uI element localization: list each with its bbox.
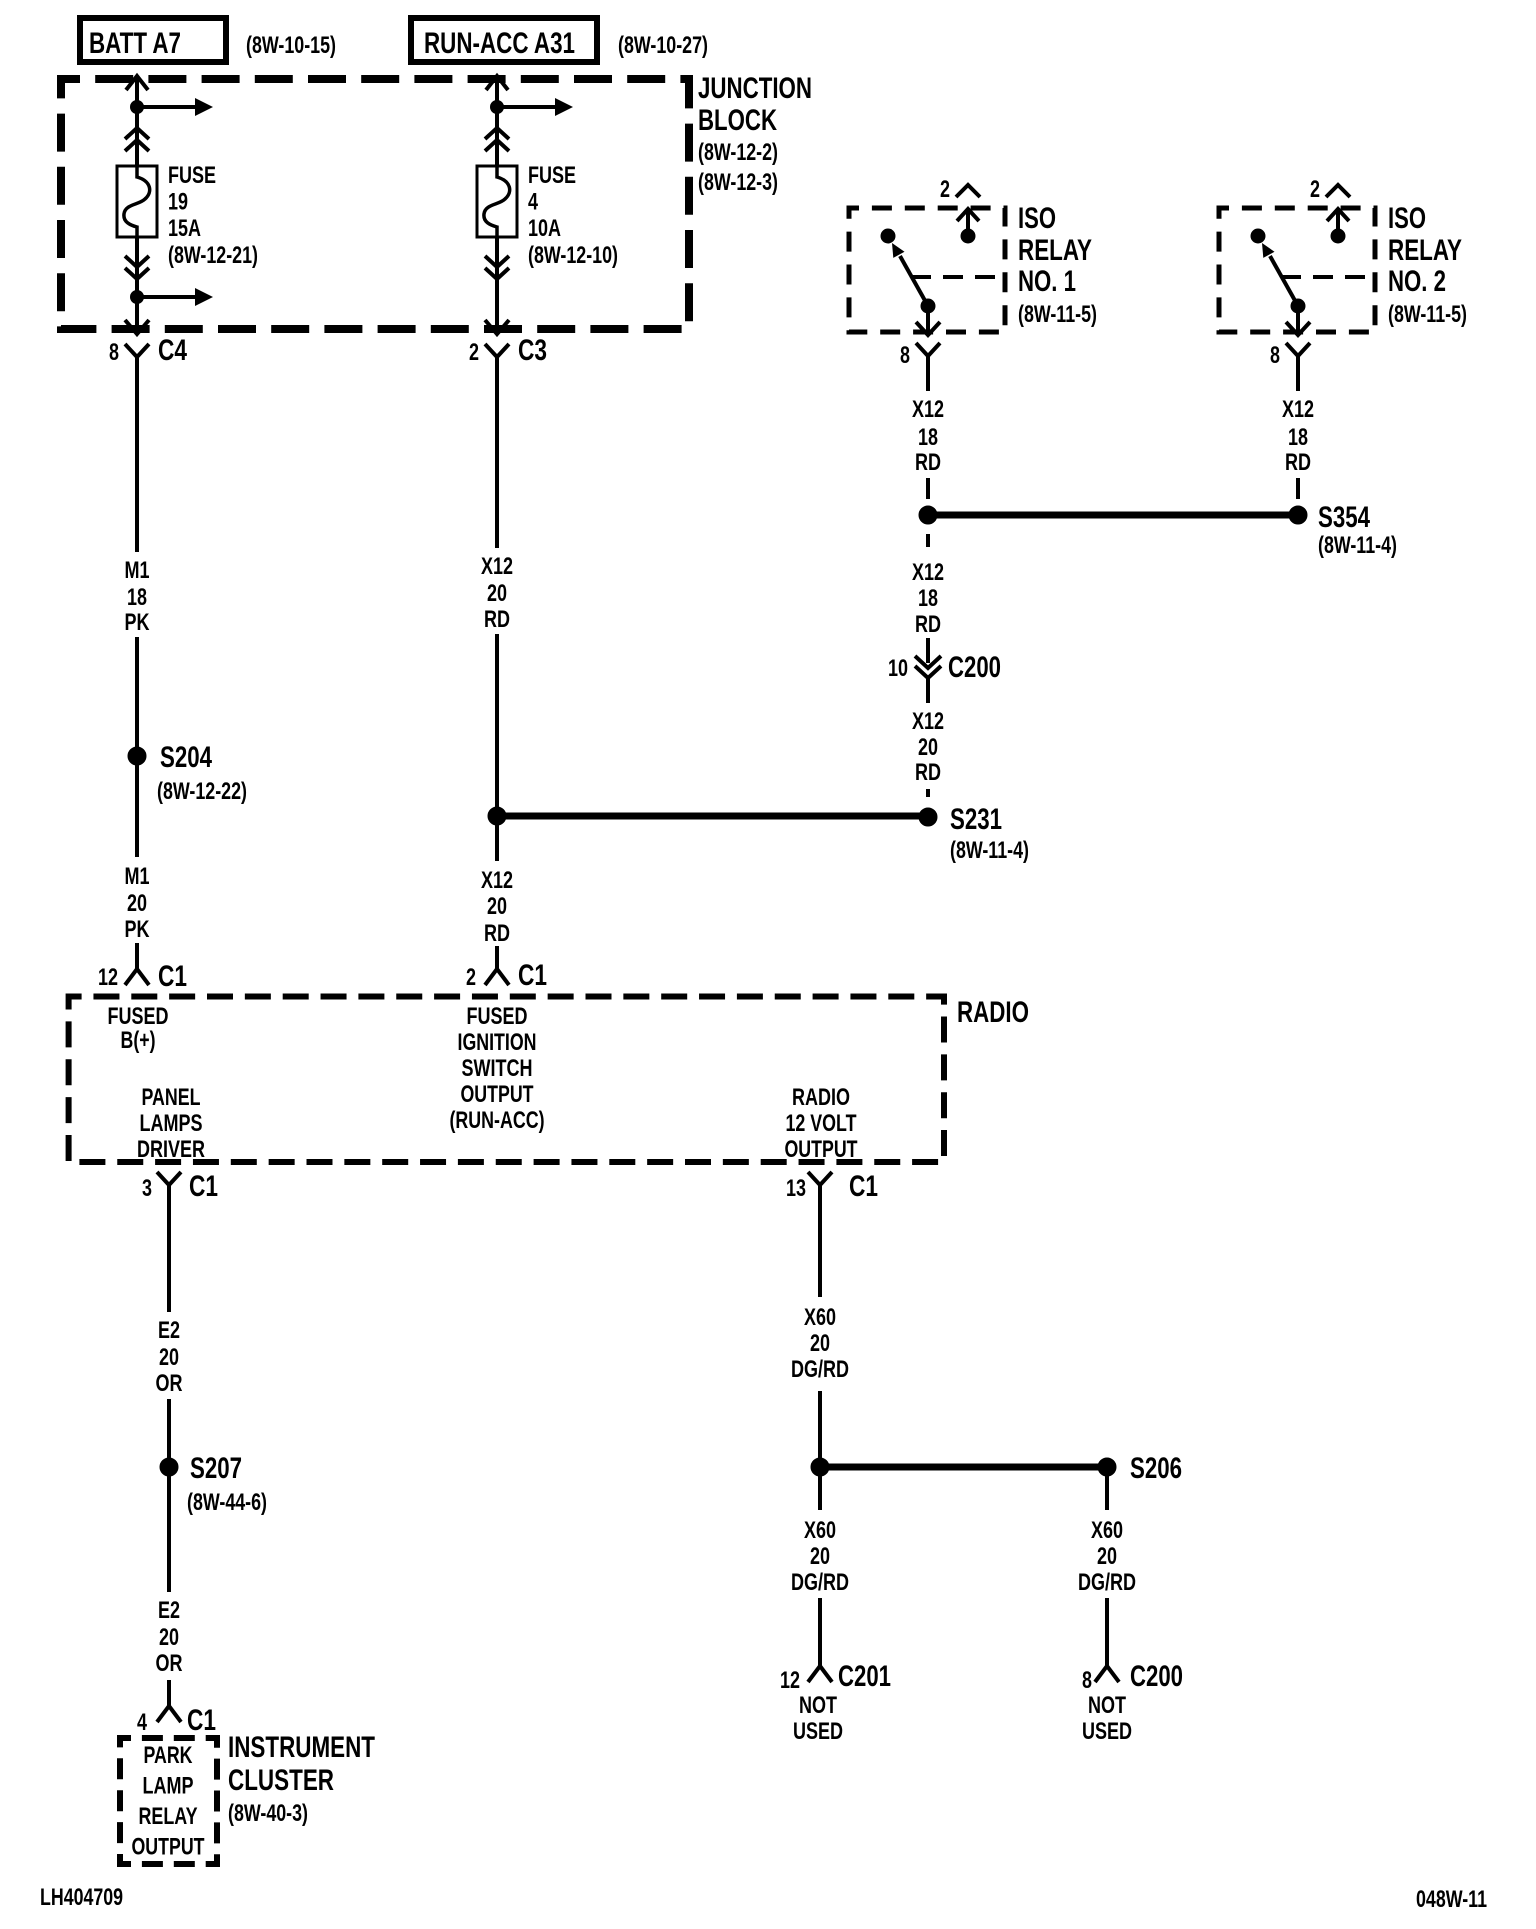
- svg-text:X60: X60: [1091, 1517, 1123, 1544]
- svg-text:X12: X12: [912, 708, 944, 735]
- svg-text:C200: C200: [948, 651, 1001, 684]
- svg-text:S207: S207: [190, 1452, 242, 1485]
- svg-text:20: 20: [159, 1624, 179, 1651]
- svg-text:NOT: NOT: [1088, 1692, 1126, 1719]
- svg-text:M1: M1: [125, 863, 150, 890]
- svg-text:(8W-11-4): (8W-11-4): [1318, 532, 1397, 559]
- svg-text:ISO: ISO: [1388, 202, 1426, 235]
- svg-text:S204: S204: [160, 741, 212, 774]
- svg-text:13: 13: [786, 1175, 806, 1202]
- svg-text:PK: PK: [125, 609, 150, 636]
- svg-text:8: 8: [1082, 1667, 1092, 1694]
- svg-text:RELAY: RELAY: [139, 1803, 198, 1830]
- svg-text:C201: C201: [838, 1660, 891, 1693]
- svg-text:(8W-11-4): (8W-11-4): [950, 837, 1029, 864]
- svg-text:C1: C1: [187, 1704, 216, 1737]
- svg-text:X12: X12: [912, 559, 944, 586]
- svg-text:4: 4: [528, 189, 538, 216]
- svg-text:8: 8: [109, 339, 119, 366]
- svg-text:(8W-10-15): (8W-10-15): [246, 32, 336, 59]
- svg-text:C1: C1: [518, 959, 547, 992]
- svg-text:(8W-12-21): (8W-12-21): [168, 242, 258, 269]
- svg-text:ISO: ISO: [1018, 202, 1056, 235]
- svg-text:B(+): B(+): [121, 1027, 156, 1054]
- svg-text:INSTRUMENT: INSTRUMENT: [228, 1731, 375, 1764]
- svg-text:JUNCTION: JUNCTION: [698, 72, 812, 105]
- svg-text:BLOCK: BLOCK: [698, 104, 777, 137]
- svg-text:10: 10: [888, 655, 908, 682]
- svg-text:X12: X12: [1282, 396, 1314, 423]
- svg-text:(8W-44-6): (8W-44-6): [187, 1489, 267, 1516]
- svg-text:PK: PK: [125, 916, 150, 943]
- svg-text:10A: 10A: [528, 215, 561, 242]
- svg-text:12 VOLT: 12 VOLT: [786, 1110, 857, 1137]
- svg-text:M1: M1: [125, 557, 150, 584]
- svg-text:(8W-11-5): (8W-11-5): [1388, 301, 1467, 328]
- svg-text:RD: RD: [484, 606, 510, 633]
- svg-text:3: 3: [142, 1175, 152, 1202]
- svg-text:OUTPUT: OUTPUT: [785, 1136, 858, 1163]
- svg-text:DG/RD: DG/RD: [791, 1356, 849, 1383]
- svg-text:NO. 1: NO. 1: [1018, 265, 1076, 298]
- svg-text:CLUSTER: CLUSTER: [228, 1764, 334, 1797]
- svg-text:C1: C1: [158, 960, 187, 993]
- svg-text:X12: X12: [912, 396, 944, 423]
- svg-text:8: 8: [1270, 342, 1280, 369]
- svg-text:18: 18: [918, 585, 938, 612]
- svg-text:OUTPUT: OUTPUT: [461, 1081, 534, 1108]
- svg-text:FUSED: FUSED: [108, 1003, 169, 1030]
- svg-text:15A: 15A: [168, 215, 201, 242]
- svg-text:048W-11: 048W-11: [1416, 1886, 1487, 1913]
- svg-text:2: 2: [940, 176, 950, 203]
- svg-text:DG/RD: DG/RD: [1078, 1569, 1136, 1596]
- svg-text:X60: X60: [804, 1517, 836, 1544]
- svg-text:19: 19: [168, 189, 188, 216]
- svg-text:RD: RD: [484, 920, 510, 947]
- svg-text:(8W-12-2): (8W-12-2): [698, 139, 778, 166]
- svg-text:DRIVER: DRIVER: [137, 1136, 205, 1163]
- svg-text:12: 12: [98, 964, 118, 991]
- svg-text:18: 18: [127, 584, 147, 611]
- svg-text:RD: RD: [1285, 449, 1311, 476]
- svg-text:20: 20: [159, 1344, 179, 1371]
- svg-text:12: 12: [780, 1667, 800, 1694]
- svg-text:NO. 2: NO. 2: [1388, 265, 1446, 298]
- svg-text:RD: RD: [915, 449, 941, 476]
- svg-text:NOT: NOT: [799, 1692, 837, 1719]
- svg-text:(RUN-ACC): (RUN-ACC): [450, 1107, 545, 1134]
- svg-text:IGNITION: IGNITION: [458, 1029, 537, 1056]
- svg-text:USED: USED: [1082, 1718, 1132, 1745]
- svg-text:2: 2: [469, 339, 479, 366]
- svg-text:20: 20: [1097, 1543, 1117, 1570]
- svg-text:OR: OR: [156, 1650, 183, 1677]
- svg-text:BATT A7: BATT A7: [89, 27, 181, 60]
- svg-text:LAMP: LAMP: [143, 1773, 194, 1800]
- svg-text:20: 20: [487, 893, 507, 920]
- svg-text:RUN-ACC A31: RUN-ACC A31: [424, 27, 575, 60]
- svg-text:4: 4: [137, 1709, 147, 1736]
- svg-text:C1: C1: [189, 1170, 218, 1203]
- svg-text:C3: C3: [518, 334, 547, 367]
- svg-text:E2: E2: [158, 1597, 180, 1624]
- svg-text:C1: C1: [849, 1170, 878, 1203]
- svg-text:RADIO: RADIO: [957, 996, 1029, 1029]
- svg-text:20: 20: [487, 580, 507, 607]
- svg-text:X12: X12: [481, 867, 513, 894]
- svg-text:S206: S206: [1130, 1452, 1182, 1485]
- svg-text:RADIO: RADIO: [792, 1084, 850, 1111]
- svg-text:(8W-40-3): (8W-40-3): [228, 1800, 308, 1827]
- svg-text:20: 20: [127, 890, 147, 917]
- svg-text:FUSED: FUSED: [467, 1003, 528, 1030]
- svg-text:PANEL: PANEL: [142, 1084, 201, 1111]
- svg-text:RELAY: RELAY: [1018, 234, 1092, 267]
- svg-text:USED: USED: [793, 1718, 843, 1745]
- svg-text:(8W-12-10): (8W-12-10): [528, 242, 618, 269]
- svg-text:C4: C4: [158, 334, 187, 367]
- svg-text:20: 20: [810, 1330, 830, 1357]
- svg-text:OR: OR: [156, 1370, 183, 1397]
- svg-text:S354: S354: [1318, 501, 1370, 534]
- svg-text:S231: S231: [950, 803, 1002, 836]
- svg-text:PARK: PARK: [144, 1742, 193, 1769]
- svg-text:2: 2: [466, 964, 476, 991]
- svg-text:LAMPS: LAMPS: [140, 1110, 203, 1137]
- svg-text:20: 20: [918, 734, 938, 761]
- svg-text:18: 18: [918, 424, 938, 451]
- svg-text:FUSE: FUSE: [168, 162, 216, 189]
- svg-text:E2: E2: [158, 1317, 180, 1344]
- svg-text:RD: RD: [915, 611, 941, 638]
- svg-text:RD: RD: [915, 759, 941, 786]
- svg-text:C200: C200: [1130, 1660, 1183, 1693]
- svg-text:FUSE: FUSE: [528, 162, 576, 189]
- svg-text:OUTPUT: OUTPUT: [132, 1834, 205, 1861]
- svg-text:(8W-12-22): (8W-12-22): [157, 778, 247, 805]
- svg-text:RELAY: RELAY: [1388, 234, 1462, 267]
- svg-text:(8W-10-27): (8W-10-27): [618, 32, 708, 59]
- svg-text:(8W-12-3): (8W-12-3): [698, 169, 778, 196]
- svg-text:18: 18: [1288, 424, 1308, 451]
- svg-text:20: 20: [810, 1543, 830, 1570]
- svg-text:X12: X12: [481, 553, 513, 580]
- svg-text:SWITCH: SWITCH: [462, 1055, 533, 1082]
- svg-text:LH404709: LH404709: [40, 1884, 123, 1911]
- svg-text:(8W-11-5): (8W-11-5): [1018, 301, 1097, 328]
- svg-text:2: 2: [1310, 176, 1320, 203]
- svg-text:8: 8: [900, 342, 910, 369]
- svg-text:X60: X60: [804, 1304, 836, 1331]
- svg-text:DG/RD: DG/RD: [791, 1569, 849, 1596]
